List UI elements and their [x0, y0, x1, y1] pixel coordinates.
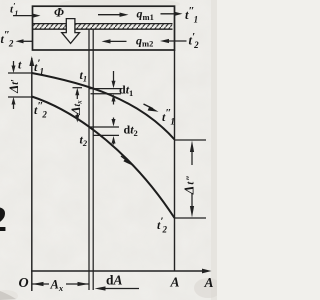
t axis: [31, 58, 33, 291]
dt1 arrows: [113, 71, 115, 84]
dt2 arrows: [113, 118, 115, 123]
svg-text:A: A: [204, 275, 214, 290]
dA strip lines: [88, 29, 90, 290]
flow arrow qm2 left: [110, 40, 127, 42]
wall hatch band: [33, 24, 172, 29]
flow arrow qm1 right (exit): [161, 13, 178, 15]
svg-text:A: A: [170, 275, 180, 290]
A line (right boundary of graph): [174, 50, 176, 271]
direction arrow on curve t1: [144, 104, 154, 109]
outlet arrow t"2: [20, 40, 33, 42]
curve t1 (hot fluid): [32, 73, 175, 140]
Ax dimension: [32, 283, 49, 285]
delta t" dimension (right): [175, 139, 207, 141]
heat flux hollow arrow: [62, 19, 80, 44]
inlet arrow t'1: [13, 15, 38, 17]
svg-text:dA: dA: [106, 273, 123, 288]
svg-text:Φ: Φ: [54, 6, 64, 20]
curve t2 (cold fluid): [32, 97, 175, 219]
delta t' dimension (left): [8, 72, 32, 74]
heat exchanger box: [33, 6, 175, 50]
dt2 ticks: [89, 126, 119, 128]
flow arrow qm1 left: [98, 14, 121, 16]
dt1 ticks: [89, 88, 121, 90]
paper background: [0, 0, 217, 300]
svg-text:O: O: [19, 276, 29, 291]
delta t_x dimension (at dA strip): [73, 87, 83, 89]
x axis: [31, 270, 207, 272]
inlet arrow t'2 (from right): [167, 40, 187, 42]
svg-text:2: 2: [0, 199, 7, 239]
direction arrow on curve t2: [121, 156, 128, 162]
